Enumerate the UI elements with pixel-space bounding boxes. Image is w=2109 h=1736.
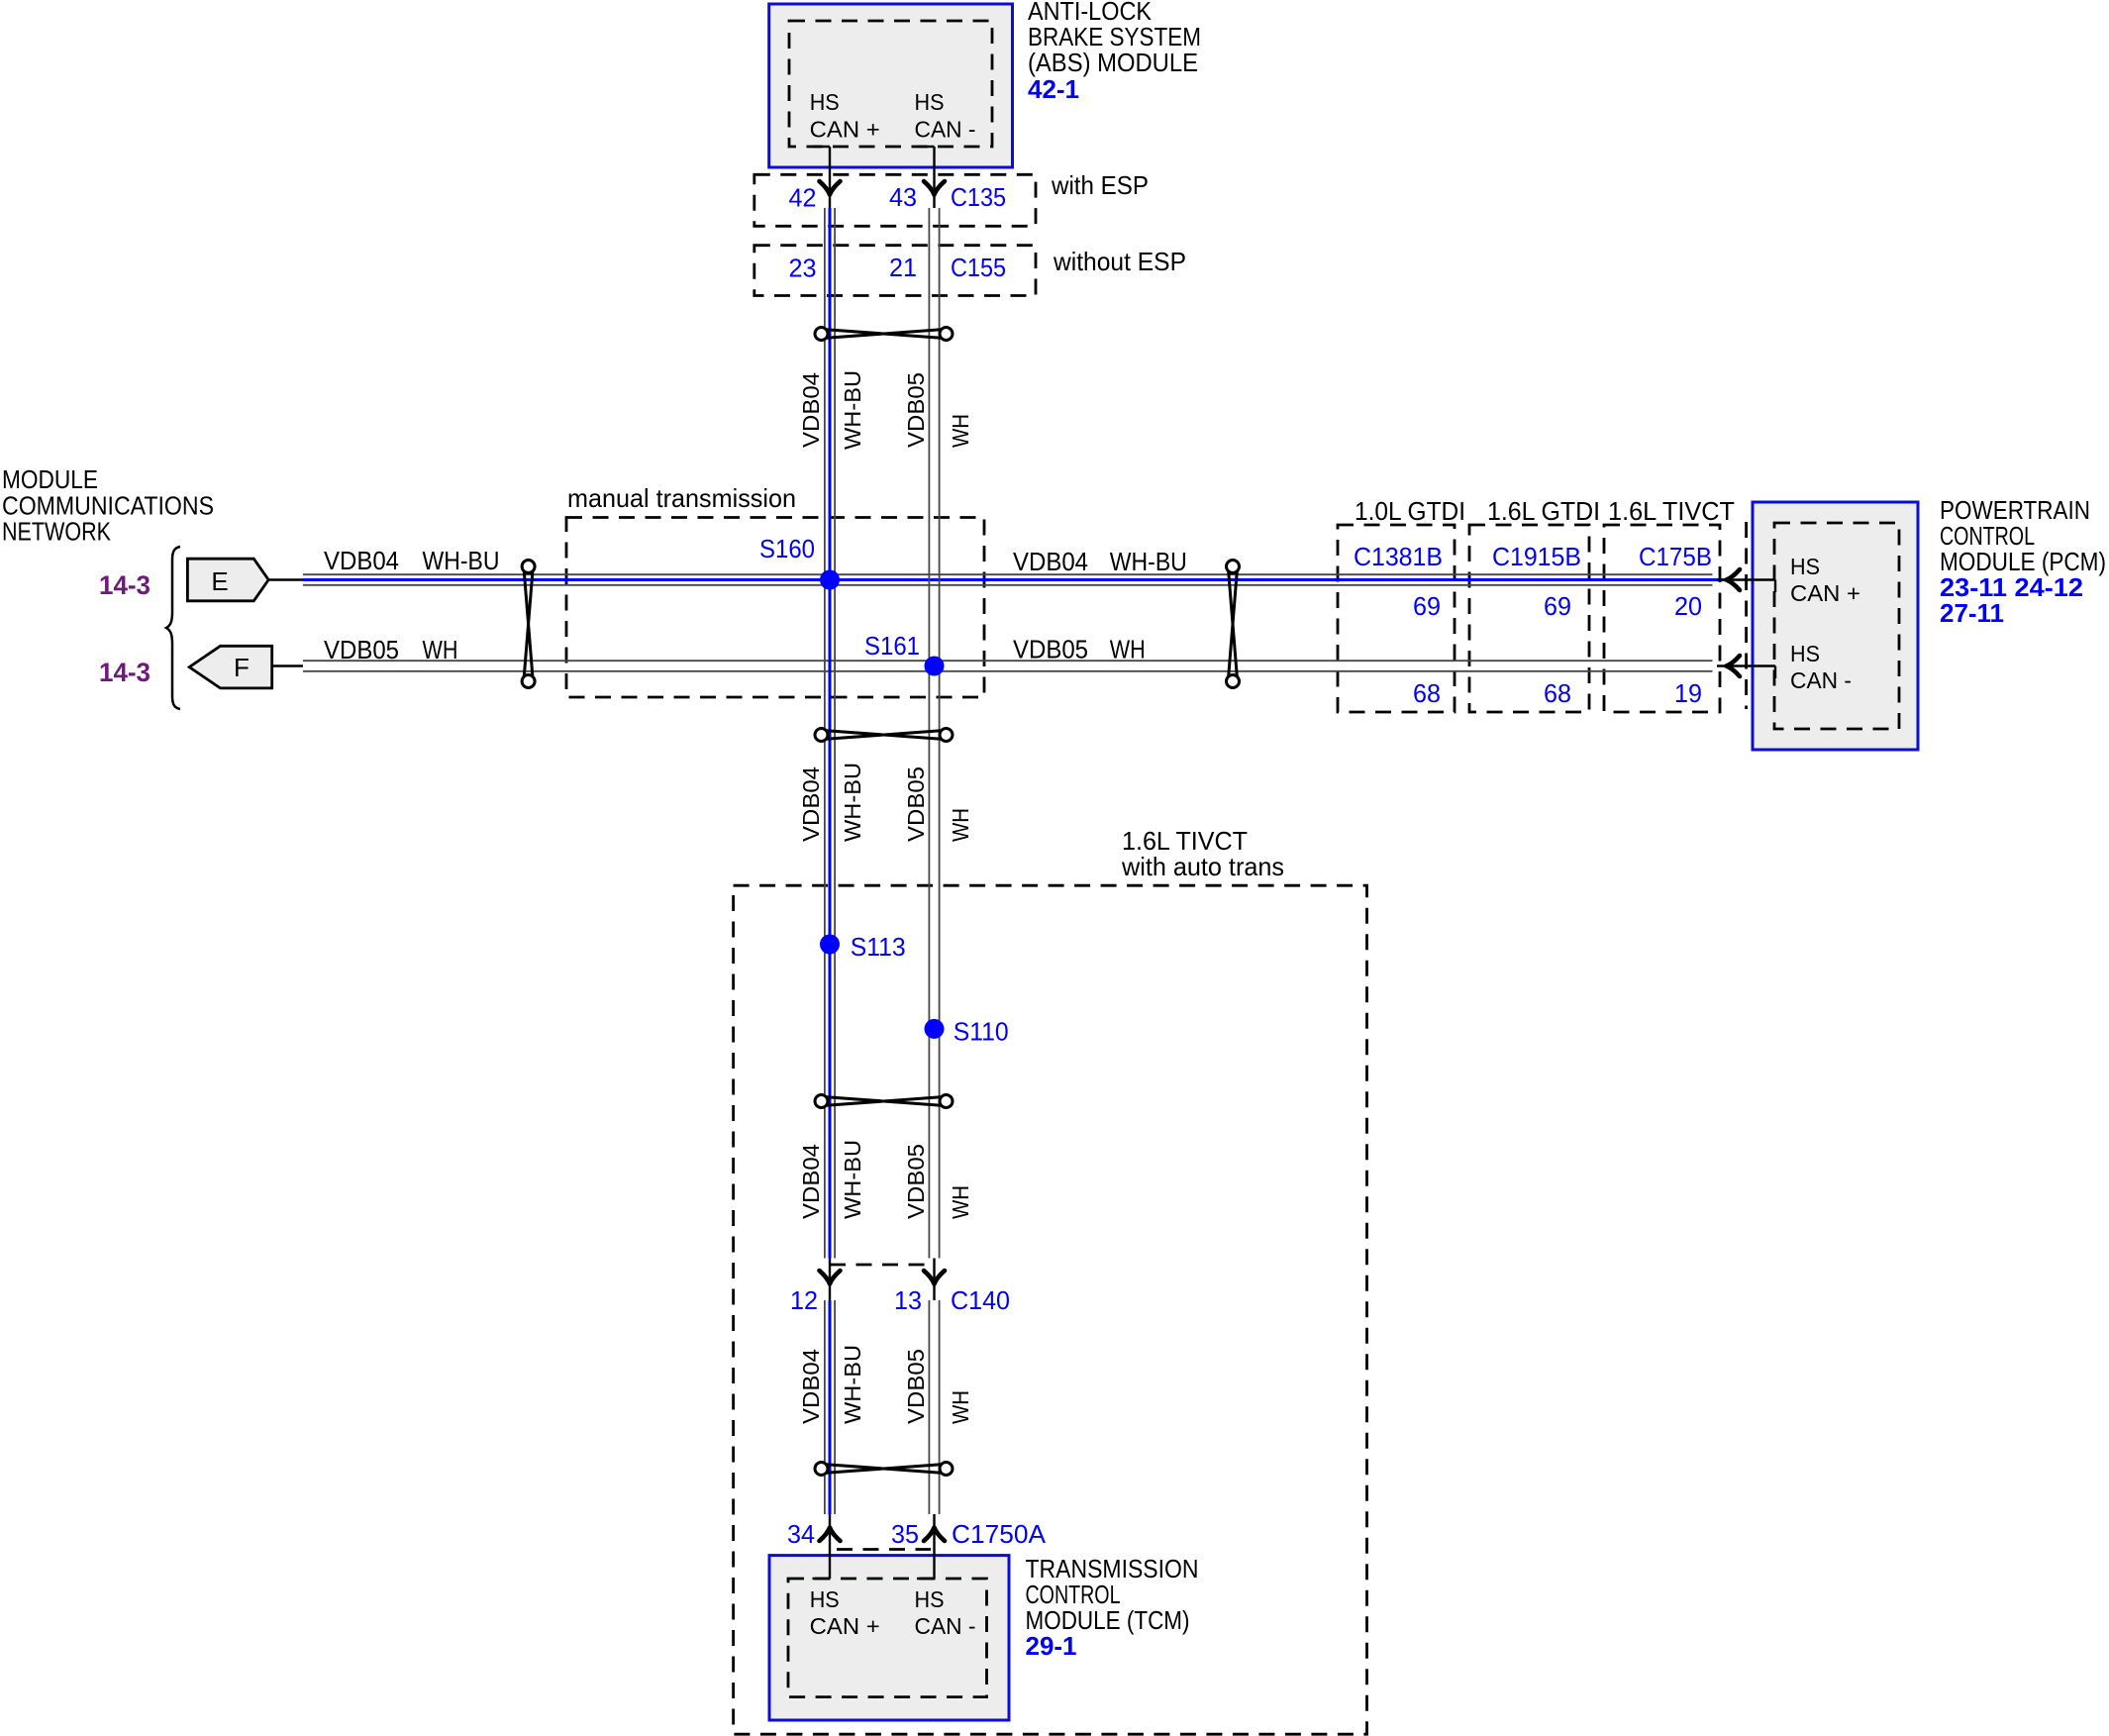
svg-text:69: 69: [1544, 591, 1571, 621]
svg-text:68: 68: [1413, 678, 1441, 708]
svg-text:S161: S161: [864, 631, 920, 661]
svg-text:WH-BU: WH-BU: [840, 370, 865, 450]
svg-text:34: 34: [787, 1519, 815, 1549]
svg-text:MODULE: MODULE: [2, 464, 98, 494]
svg-text:C155: C155: [951, 253, 1006, 282]
svg-text:S113: S113: [851, 932, 906, 962]
svg-text:42-1: 42-1: [1028, 74, 1079, 104]
svg-text:HS: HS: [915, 1586, 945, 1612]
svg-text:68: 68: [1544, 678, 1571, 708]
svg-text:42: 42: [789, 183, 817, 213]
svg-text:without ESP: without ESP: [1053, 247, 1186, 276]
svg-text:HS: HS: [810, 89, 840, 115]
svg-text:S110: S110: [954, 1017, 1009, 1047]
svg-text:VDB04: VDB04: [798, 1349, 824, 1424]
svg-text:1.0L GTDI: 1.0L GTDI: [1355, 496, 1465, 526]
svg-text:manual transmission: manual transmission: [567, 483, 796, 513]
svg-text:VDB04: VDB04: [798, 766, 824, 842]
svg-text:C1750A: C1750A: [952, 1519, 1047, 1549]
svg-text:C140: C140: [951, 1285, 1010, 1315]
svg-text:HS: HS: [915, 89, 945, 115]
svg-text:WH: WH: [948, 1185, 973, 1219]
svg-text:CAN +: CAN +: [1790, 580, 1860, 606]
svg-text:VDB05: VDB05: [324, 635, 399, 664]
svg-text:CAN +: CAN +: [810, 117, 880, 143]
svg-text:19: 19: [1674, 678, 1702, 708]
svg-text:12: 12: [790, 1285, 818, 1315]
svg-text:C1381B: C1381B: [1354, 542, 1443, 571]
svg-text:21: 21: [889, 253, 917, 282]
svg-text:WH: WH: [1110, 635, 1146, 664]
svg-text:F: F: [234, 653, 250, 682]
svg-text:1.6L TIVCT: 1.6L TIVCT: [1608, 496, 1735, 526]
svg-text:VDB04: VDB04: [1013, 547, 1088, 576]
svg-text:VDB05: VDB05: [903, 1144, 929, 1219]
svg-text:HS: HS: [1790, 641, 1820, 666]
svg-text:VDB04: VDB04: [324, 546, 399, 575]
svg-text:HS: HS: [810, 1586, 840, 1612]
svg-text:CAN +: CAN +: [810, 1613, 880, 1639]
svg-text:C1915B: C1915B: [1492, 542, 1581, 571]
svg-text:CAN -: CAN -: [1790, 667, 1852, 693]
svg-text:VDB05: VDB05: [903, 372, 929, 448]
svg-text:14-3: 14-3: [99, 658, 151, 687]
svg-text:WH-BU: WH-BU: [840, 763, 865, 842]
svg-text:VDB05: VDB05: [903, 766, 929, 842]
svg-text:CAN -: CAN -: [915, 1613, 976, 1639]
svg-text:WH: WH: [948, 414, 973, 448]
svg-text:WH: WH: [948, 1390, 973, 1424]
svg-text:VDB05: VDB05: [903, 1349, 929, 1424]
svg-text:WH: WH: [423, 635, 458, 664]
svg-text:1.6L GTDI: 1.6L GTDI: [1487, 496, 1600, 526]
svg-text:VDB04: VDB04: [798, 1144, 824, 1219]
svg-text:with auto trans: with auto trans: [1121, 852, 1284, 881]
svg-text:WH-BU: WH-BU: [423, 546, 500, 575]
svg-text:CAN -: CAN -: [915, 117, 976, 143]
svg-text:20: 20: [1674, 591, 1702, 621]
svg-text:WH-BU: WH-BU: [1110, 547, 1187, 576]
svg-text:23: 23: [789, 254, 817, 283]
svg-text:with ESP: with ESP: [1051, 170, 1149, 200]
svg-text:VDB05: VDB05: [1013, 635, 1088, 664]
svg-text:WH: WH: [948, 808, 973, 842]
svg-text:43: 43: [889, 182, 917, 212]
svg-text:(ABS) MODULE: (ABS) MODULE: [1028, 48, 1198, 77]
svg-text:HS: HS: [1790, 554, 1820, 579]
svg-text:E: E: [211, 566, 228, 596]
svg-text:35: 35: [891, 1519, 919, 1549]
svg-text:C175B: C175B: [1639, 542, 1712, 571]
svg-text:NETWORK: NETWORK: [2, 517, 112, 547]
svg-text:WH-BU: WH-BU: [840, 1140, 865, 1219]
svg-text:69: 69: [1413, 591, 1441, 621]
svg-text:14-3: 14-3: [99, 570, 151, 600]
svg-text:C135: C135: [951, 182, 1006, 212]
svg-text:VDB04: VDB04: [798, 372, 824, 448]
svg-text:29-1: 29-1: [1026, 1631, 1077, 1661]
svg-text:WH-BU: WH-BU: [840, 1345, 865, 1424]
svg-text:13: 13: [894, 1285, 922, 1315]
svg-text:S160: S160: [759, 534, 815, 563]
svg-text:27-11: 27-11: [1940, 598, 2004, 628]
